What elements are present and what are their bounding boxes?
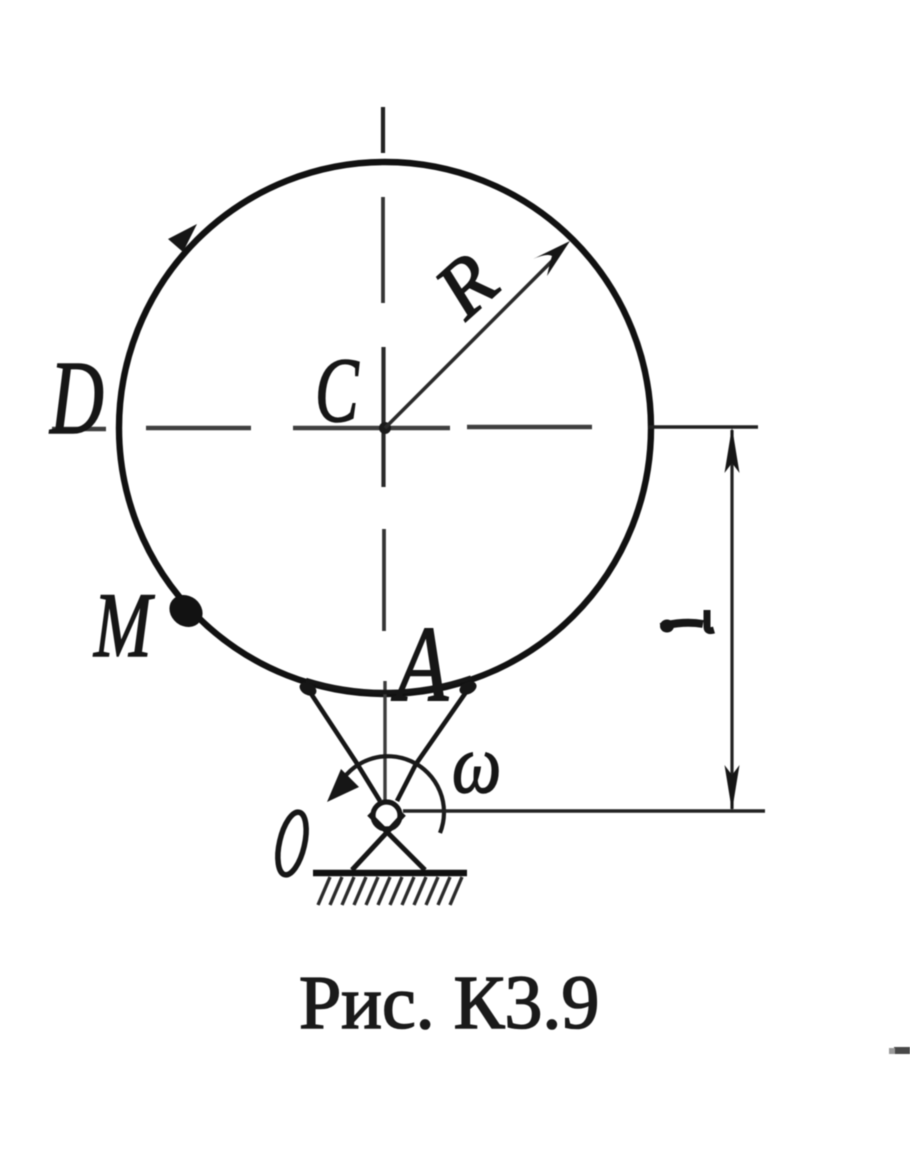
point M (filled dot on ring): [163, 588, 209, 633]
fork left arm: [306, 686, 380, 801]
vertical centerline tick above circle: [381, 107, 385, 153]
svg-text:ω: ω: [452, 717, 501, 811]
horizontal centerline dash through center: [293, 426, 450, 431]
fork-ring junction blobs: [297, 679, 319, 698]
horizontal centerline dash under D: [52, 427, 106, 432]
support leg left-to-right: [369, 814, 425, 870]
horizontal centerline dash 4: [467, 425, 592, 430]
stray mark bottom right: [894, 1047, 910, 1054]
label D: [48, 340, 103, 456]
svg-text:Рис. К3.9: Рис. К3.9: [299, 961, 599, 1045]
svg-text:R: R: [418, 237, 514, 336]
svg-text:C: C: [315, 340, 359, 441]
lower extension line: [403, 809, 765, 813]
label A: [391, 605, 449, 725]
radius line R: [385, 255, 558, 428]
dimension arrow up: [725, 427, 740, 473]
label O: [273, 810, 312, 878]
fork grip along ring bottom: [306, 678, 471, 692]
vertical centerline dash 3: [382, 529, 386, 631]
vertical centerline dash 2 (through center): [381, 347, 385, 487]
svg-text:A: A: [391, 605, 449, 725]
label l (rotated script ell): [661, 610, 714, 631]
direction arrowhead on arc: [168, 224, 197, 252]
upper extension line (right of circle): [649, 425, 758, 429]
center junction blob: [379, 422, 391, 434]
label C: [315, 340, 359, 441]
vertical centerline dash 1: [381, 197, 385, 303]
ground line: [313, 870, 467, 877]
fork right arm: [397, 685, 471, 801]
label M: [93, 575, 155, 677]
label omega: [452, 717, 501, 811]
omega arc arrowhead: [327, 769, 359, 802]
support leg right-to-left: [352, 814, 404, 870]
svg-text:M: M: [93, 575, 155, 677]
ring (circle): [119, 162, 651, 694]
horizontal centerline dash 2: [146, 426, 251, 431]
dimension arrow down: [725, 765, 740, 811]
pivot circle O: [373, 802, 400, 829]
vertical line to pivot: [383, 681, 386, 803]
svg-text:D: D: [48, 340, 103, 456]
radius arrowhead: [533, 241, 570, 276]
dimension line l: [730, 430, 733, 809]
ground hatching: [318, 877, 462, 905]
omega rotation arc: [338, 756, 444, 833]
